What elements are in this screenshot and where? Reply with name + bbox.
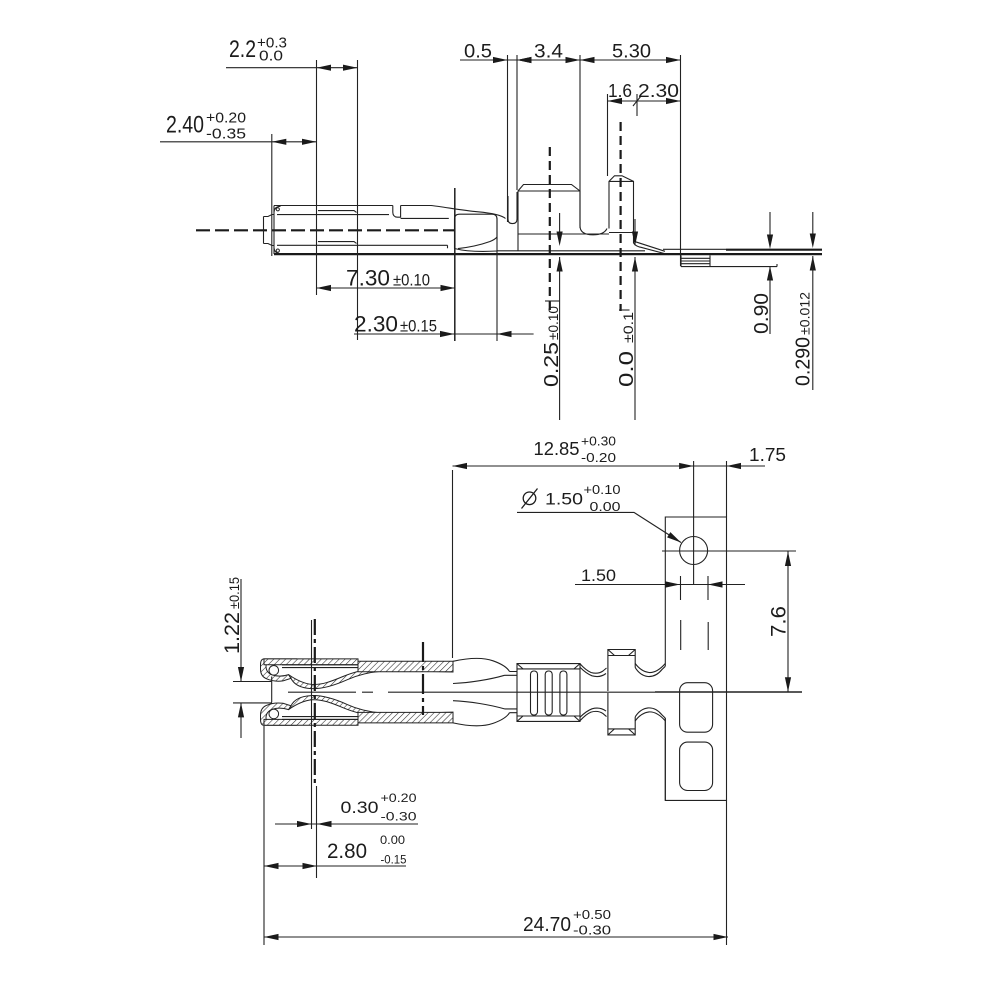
svg-text:-0.35: -0.35 [206,126,246,143]
extension line x=507.5 [507,55,509,222]
extension line x=455 (thick) [454,188,456,341]
dimension 1.75 [727,445,787,469]
tab cutout 1 [680,683,713,733]
leader ⌀1.50 +0.10/0.00 [517,482,683,545]
extension line x=680.5 [680,55,682,266]
svg-text:0.00: 0.00 [380,835,405,847]
wire barrel hatched band bottom [358,712,453,723]
svg-text:2.40: 2.40 [166,112,204,139]
dimension 2.80 0.00/-0.15 [264,835,407,869]
dimension 7.30±0.10 [317,266,456,292]
extension line x=607.5 [607,94,609,176]
top spring arm hatched [289,666,453,688]
slot between bump and wing [508,192,517,224]
extension line x=497 [496,218,498,341]
svg-text:±0.15: ±0.15 [226,577,242,609]
svg-text:0.5: 0.5 [464,42,492,63]
extension line x=580 [579,55,581,228]
dimension 2.30±0.15 [354,312,534,338]
fold marks at hole edges [681,620,709,650]
main bottom edge thick [274,253,822,255]
svg-text:0.0: 0.0 [616,351,638,387]
svg-text:0.25: 0.25 [541,342,563,387]
dashed center axis of wire crimp x=549.8 [549,147,551,311]
svg-text:7.6: 7.6 [768,606,791,637]
extension line x=264 [263,726,265,945]
svg-text:2.80: 2.80 [327,840,367,863]
extension line x=316.5 [316,60,318,295]
dimension 3.4 [517,42,580,64]
insulation wing bottom (bottom view) [608,693,665,735]
extension line x=726.5 bottom [726,800,728,945]
extension line x=357.5 [357,60,359,340]
svg-text:1.50: 1.50 [545,490,583,509]
centerline top view [196,229,455,231]
svg-text:0.00: 0.00 [590,499,621,514]
svg-text:0.290: 0.290 [793,337,815,386]
dimension 24.70 +0.50/-0.30 [264,908,728,940]
svg-text:-0.20: -0.20 [581,450,616,465]
svg-text:±0.15: ±0.15 [400,318,437,336]
extension line x=517 [516,55,518,190]
dash-dot thick line x=423 [422,642,424,715]
svg-text:24.70: 24.70 [523,914,571,936]
svg-text:7.30: 7.30 [346,266,390,291]
tail transition diagonals [634,241,669,254]
dimension 2.40 +0.20/-0.35 [160,110,317,145]
rolled beak tip bottom [261,703,298,725]
svg-text:1.6: 1.6 [608,81,632,101]
dimension 1.50 (hole) [575,567,745,588]
svg-text:12.85: 12.85 [534,439,580,459]
dimension 1.22±0.15 (rotated) [221,577,272,738]
svg-text:3.4: 3.4 [534,42,563,63]
reference line centerline right [655,691,802,693]
svg-text:±0.012: ±0.012 [797,292,813,335]
weld box below strip [681,255,777,266]
svg-text:2.30: 2.30 [638,81,679,101]
extension line x=452.5 [452,470,454,658]
svg-text:+0.20: +0.20 [381,793,417,805]
svg-text:+0.30: +0.30 [581,434,616,449]
extension line x=311.5 [311,620,313,829]
svg-text:+0.50: +0.50 [573,908,611,922]
svg-text:1.75: 1.75 [749,445,786,465]
dashed center axis of insulation crimp x=620.6 [619,122,621,311]
hole center vertical [693,461,695,585]
svg-text:1.22: 1.22 [221,612,244,654]
dimension 0.25±0.10 (rotated) [541,213,563,420]
inner sleeve lines [277,211,449,249]
front box hatched band top [264,659,358,665]
wire crimp wing [518,185,609,251]
tab cutout 2 [680,742,713,790]
reference line from hole center [662,550,796,552]
front box hatched band bottom [264,719,358,725]
bell mouth bottom [453,701,517,726]
svg-text:+0.10: +0.10 [584,482,621,497]
neck band to insulation wing bottom [580,708,607,721]
serration box [517,664,580,722]
svg-text:2.30: 2.30 [354,312,398,337]
neck band to insulation wing top [580,664,607,677]
svg-text:±0.1: ±0.1 [620,312,636,343]
insulation crimp wing [609,176,634,243]
bottom spring arm hatched [289,696,453,718]
carrier tab [665,517,726,800]
tick x=637 for 1.6 [636,94,638,116]
dimension 5.30 [580,42,681,64]
bottom plate thin line [497,250,645,252]
svg-text:5.30: 5.30 [612,42,651,63]
bell mouth top [453,658,517,683]
svg-text:0.90: 0.90 [751,293,773,334]
dimension 2.2 +0.3/0.0 [226,35,358,71]
centerline bottom view [288,691,802,693]
svg-text:-0.30: -0.30 [381,812,417,824]
carrier strip top line [663,248,822,250]
transition bump [455,214,498,251]
inner box lines at front [282,665,358,720]
serration bars [531,671,567,715]
svg-text:±0.10: ±0.10 [393,272,430,290]
dimension 0.30 +0.20/-0.30 [275,793,418,827]
dimension 12.85 +0.30/-0.20 [453,434,766,470]
insulation wing top (bottom view) [608,650,665,692]
hole in tab [680,537,708,565]
dimension 0.5 [460,42,681,64]
rolled beak tip top [261,659,298,681]
extension line x=271.8 [271,134,273,256]
terminal top edge with notch [274,206,506,219]
dimension 0.90 (rotated) [751,212,773,334]
svg-text:0.0: 0.0 [259,48,283,65]
dimension 0.0±0.1 (rotated) [616,219,638,420]
hole edge ticks [681,576,709,600]
svg-text:-0.15: -0.15 [381,855,407,867]
dimension 0.290±0.012 (rotated) [793,212,816,390]
svg-text:+0.20: +0.20 [206,110,246,127]
beak mouth vertical line [271,677,273,703]
valley between wings [580,226,607,235]
terminal tip nose [264,206,281,255]
svg-text:2.2: 2.2 [229,36,256,63]
dimension 1.6 / 2.30 [608,81,681,106]
dash-dot thick line x=317 [315,619,317,878]
svg-text:-0.30: -0.30 [573,924,611,938]
dimension 7.6 (rotated) [768,552,792,692]
svg-text:1.50: 1.50 [581,567,616,585]
extension line x=726.5 top [726,461,728,517]
wire barrel hatched band top [358,661,453,672]
svg-text:0.30: 0.30 [341,799,379,817]
svg-text:±0.10: ±0.10 [545,306,561,340]
